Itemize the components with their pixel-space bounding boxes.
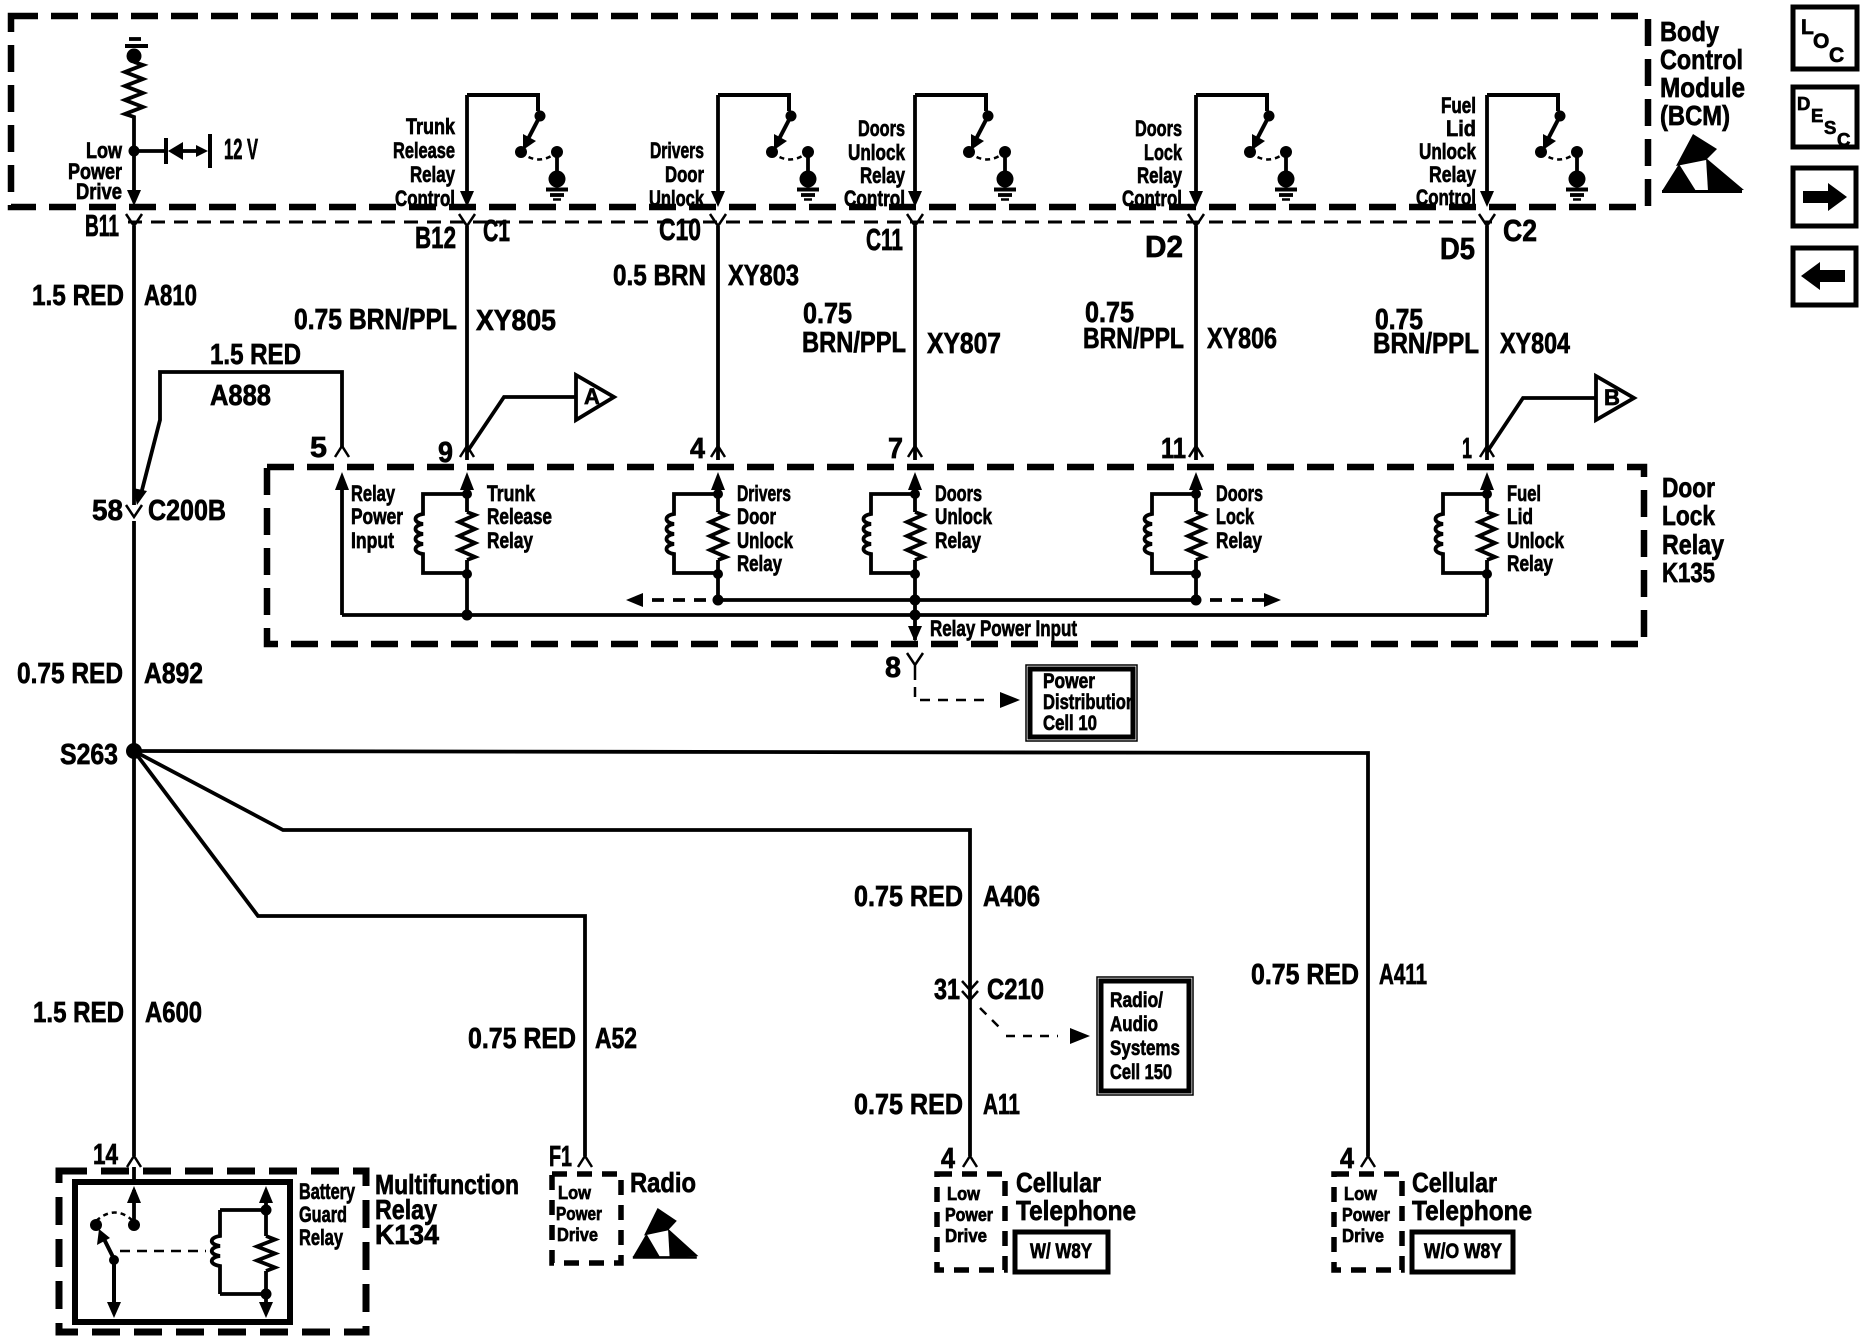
- dashed reference to Power Distribution: [915, 687, 1020, 708]
- svg-text:A888: A888: [210, 380, 271, 412]
- svg-text:Lock: Lock: [1216, 504, 1255, 529]
- pin 14: [127, 1156, 141, 1167]
- relay: Doors Unlock Relay (pin 7): [908, 446, 922, 457]
- svg-text:E: E: [1811, 105, 1823, 126]
- svg-text:S: S: [1824, 117, 1836, 138]
- dashed reference to Radio/Audio Systems: [980, 1008, 1090, 1044]
- svg-text:Fuel: Fuel: [1507, 481, 1541, 506]
- pin 4: [1361, 1156, 1375, 1167]
- Cellular Telephone Low Power Drive (dashed box): [1334, 1174, 1402, 1270]
- svg-text:Control: Control: [844, 186, 905, 211]
- svg-text:Drive: Drive: [945, 1225, 987, 1246]
- svg-text:Input: Input: [351, 528, 395, 553]
- flag A (to cell): [467, 375, 614, 452]
- svg-text:Cell 150: Cell 150: [1110, 1061, 1172, 1084]
- label Fuel Lid Unlock Relay Control: [1416, 93, 1477, 210]
- K134 relay coil and resistor: [212, 1186, 275, 1318]
- connector C2 (pin D5): [1479, 214, 1495, 226]
- svg-text:Cellular: Cellular: [1016, 1167, 1101, 1198]
- K134 switch: [90, 1186, 206, 1318]
- label Doors Lock Relay Control: [1122, 116, 1183, 211]
- svg-text:A600: A600: [145, 997, 202, 1029]
- svg-text:Module: Module: [1660, 72, 1745, 103]
- svg-text:Relay: Relay: [1216, 528, 1263, 553]
- svg-text:4: 4: [941, 1143, 955, 1175]
- svg-text:C10: C10: [659, 212, 701, 247]
- svg-text:Cellular: Cellular: [1412, 1167, 1497, 1198]
- BCM module boundary (dashed box): [11, 16, 1648, 207]
- svg-text:Door: Door: [737, 504, 776, 529]
- svg-text:A892: A892: [144, 658, 203, 690]
- svg-text:Power: Power: [1342, 1204, 1390, 1225]
- svg-text:0.75 RED: 0.75 RED: [854, 881, 963, 913]
- lock/unlock bus (upper): [718, 598, 1196, 602]
- svg-text:0.5 BRN: 0.5 BRN: [613, 260, 706, 292]
- wire D2 drop: [1189, 95, 1203, 207]
- back button: [1793, 248, 1856, 305]
- option box W/O W8Y: [1412, 1232, 1513, 1272]
- label Battery Guard Relay: [299, 1179, 356, 1250]
- svg-text:Doors: Doors: [1135, 116, 1182, 141]
- svg-text:Drive: Drive: [557, 1224, 598, 1245]
- wire A52 branch (S263 to radio): [134, 751, 585, 1156]
- svg-text:Door: Door: [665, 162, 704, 187]
- svg-text:Systems: Systems: [1110, 1037, 1180, 1060]
- label Door Lock Relay K135: [1662, 472, 1724, 588]
- relay: Doors Lock Relay (pin 11): [1189, 446, 1203, 457]
- driver: Doors Lock Relay Control: [1196, 95, 1297, 200]
- reference box Radio/Audio Systems Cell 150: [1097, 977, 1193, 1095]
- svg-text:8: 8: [885, 652, 901, 684]
- svg-text:Body: Body: [1660, 16, 1719, 47]
- svg-text:A52: A52: [595, 1023, 637, 1055]
- svg-text:Doors: Doors: [935, 481, 982, 506]
- wire A810 (B11 to C200B): [132, 226, 136, 505]
- svg-text:Relay: Relay: [860, 163, 906, 188]
- svg-text:4: 4: [690, 433, 705, 465]
- svg-text:Relay: Relay: [737, 551, 783, 576]
- BCM connector line (thin dashed): [128, 221, 1492, 224]
- svg-text:K134: K134: [375, 1219, 439, 1250]
- svg-text:K135: K135: [1662, 557, 1715, 588]
- driver: Doors Unlock Relay Control: [915, 95, 1016, 200]
- svg-text:D2: D2: [1145, 229, 1183, 264]
- wire A411 branch (S263 to right cellular telephone): [134, 751, 1368, 1156]
- svg-text:XY804: XY804: [1500, 328, 1570, 360]
- connector C200B (pin 58): [126, 505, 142, 517]
- relay power bus (lower): [342, 613, 1487, 617]
- label Trunk Release Relay Control: [393, 114, 456, 211]
- pin F1: [578, 1156, 592, 1167]
- svg-text:0.75 RED: 0.75 RED: [1251, 959, 1359, 991]
- DESC button: [1793, 87, 1857, 150]
- svg-text:F1: F1: [549, 1141, 572, 1173]
- svg-text:Fuel: Fuel: [1441, 93, 1476, 118]
- svg-text:D5: D5: [1440, 231, 1475, 266]
- svg-text:B: B: [1604, 385, 1620, 410]
- svg-text:1.5 RED: 1.5 RED: [210, 339, 301, 371]
- K134 relay case (solid box): [75, 1182, 290, 1322]
- svg-text:11: 11: [1161, 433, 1186, 465]
- svg-text:Low: Low: [947, 1183, 981, 1204]
- svg-text:Unlock: Unlock: [1507, 528, 1565, 553]
- svg-text:XY806: XY806: [1207, 323, 1277, 355]
- svg-text:Unlock: Unlock: [1419, 139, 1477, 164]
- svg-text:W/ W8Y: W/ W8Y: [1030, 1240, 1092, 1263]
- svg-text:C: C: [1837, 129, 1850, 150]
- svg-text:Relay Power Input: Relay Power Input: [930, 616, 1078, 641]
- svg-text:Relay: Relay: [1507, 551, 1554, 576]
- svg-text:Relay: Relay: [935, 528, 982, 553]
- wire A892 (C200B to S263): [132, 521, 136, 751]
- svg-text:Trunk: Trunk: [406, 114, 456, 139]
- svg-text:BRN/PPL: BRN/PPL: [1373, 328, 1479, 360]
- svg-text:A810: A810: [144, 280, 197, 312]
- svg-text:Distribution: Distribution: [1043, 691, 1136, 714]
- relay: Trunk Release Relay (pin 9): [460, 446, 474, 457]
- wire C11 drop: [908, 95, 922, 207]
- svg-text:C11: C11: [866, 222, 903, 257]
- ESD sensitivity symbol (BCM): [1662, 134, 1744, 193]
- Radio Low Power Drive (dashed box): [552, 1174, 621, 1263]
- svg-text:1.5 RED: 1.5 RED: [33, 997, 124, 1029]
- driver: Drivers Door Unlock: [718, 95, 819, 200]
- svg-text:Unlock: Unlock: [649, 186, 705, 211]
- svg-text:Relay: Relay: [410, 162, 456, 187]
- LOC button: [1793, 7, 1857, 69]
- svg-text:A11: A11: [983, 1089, 1020, 1121]
- option box W/ W8Y: [1015, 1232, 1108, 1272]
- forward button: [1793, 168, 1856, 226]
- svg-text:O: O: [1813, 30, 1829, 53]
- svg-text:5: 5: [310, 432, 327, 464]
- svg-text:Drive: Drive: [76, 179, 122, 204]
- Cellular Telephone Low Power Drive (dashed box): [937, 1174, 1005, 1270]
- svg-text:Radio/: Radio/: [1110, 989, 1163, 1012]
- relay: Drivers Door Unlock Relay (pin 4): [711, 446, 725, 457]
- resistor (Low Power Drive pull-up): [125, 62, 143, 146]
- connector C11: [907, 214, 923, 226]
- svg-text:C: C: [1829, 44, 1844, 67]
- svg-text:C210: C210: [987, 974, 1044, 1006]
- wire C1 drop: [460, 95, 474, 207]
- svg-text:Unlock: Unlock: [737, 528, 794, 553]
- svg-text:Doors: Doors: [1216, 481, 1263, 506]
- connector C10: [710, 214, 726, 226]
- svg-text:58: 58: [92, 495, 123, 527]
- splice S263: [126, 743, 142, 759]
- svg-text:D: D: [1797, 93, 1810, 114]
- reference box Power Distribution Cell 10: [1026, 665, 1137, 741]
- svg-text:Doors: Doors: [858, 116, 905, 141]
- K135 module boundary (dashed box): [267, 467, 1644, 644]
- connector B11: [126, 214, 142, 226]
- svg-text:C200B: C200B: [148, 495, 226, 527]
- svg-text:7: 7: [888, 433, 903, 465]
- node at Low Power Drive: [129, 146, 140, 157]
- svg-text:Drivers: Drivers: [650, 138, 704, 163]
- svg-text:Relay: Relay: [1662, 529, 1724, 560]
- svg-text:Release: Release: [487, 504, 552, 529]
- svg-text:Release: Release: [393, 138, 455, 163]
- flag B (to cell): [1487, 376, 1634, 452]
- svg-text:XY807: XY807: [927, 328, 1001, 360]
- wire A888 branch (C200B to pin 5): [133, 372, 342, 505]
- svg-text:W/O W8Y: W/O W8Y: [1424, 1240, 1502, 1263]
- svg-text:Control: Control: [1416, 185, 1476, 210]
- svg-text:14: 14: [93, 1139, 118, 1171]
- svg-text:Control: Control: [1122, 186, 1182, 211]
- svg-text:Unlock: Unlock: [848, 140, 906, 165]
- junction dots: [462, 610, 473, 621]
- svg-text:4: 4: [1340, 1143, 1354, 1175]
- svg-text:A: A: [584, 384, 600, 409]
- wire A406 branch (S263 to C210): [134, 751, 970, 1156]
- wire B11 drop inside BCM: [127, 151, 141, 206]
- svg-text:Drivers: Drivers: [737, 481, 791, 506]
- svg-text:Radio: Radio: [630, 1167, 696, 1198]
- svg-text:0.75: 0.75: [803, 298, 852, 330]
- svg-text:XY805: XY805: [476, 305, 556, 337]
- driver: Trunk Release Relay Control: [467, 95, 568, 200]
- svg-text:A406: A406: [983, 881, 1040, 913]
- svg-text:Relay: Relay: [1137, 163, 1183, 188]
- svg-text:31: 31: [934, 974, 960, 1006]
- pin 8 Relay Power Input output: [908, 626, 922, 642]
- wire XY806 (D2 to pin 11): [1194, 226, 1198, 460]
- svg-text:Relay: Relay: [351, 481, 396, 506]
- svg-text:Lock: Lock: [1144, 140, 1183, 165]
- svg-text:1: 1: [1462, 433, 1472, 465]
- dashed continuation right with arrow: [1210, 593, 1281, 607]
- svg-text:0.75 RED: 0.75 RED: [854, 1089, 963, 1121]
- svg-text:Lid: Lid: [1507, 504, 1533, 529]
- svg-text:Power: Power: [945, 1204, 993, 1225]
- svg-text:Relay: Relay: [1429, 162, 1477, 187]
- svg-text:Low: Low: [558, 1182, 592, 1203]
- svg-text:S263: S263: [60, 739, 118, 771]
- svg-text:Power: Power: [1043, 670, 1095, 693]
- wire XY803 (C10 to pin 4): [716, 226, 720, 460]
- svg-text:0.75 RED: 0.75 RED: [17, 658, 123, 690]
- svg-text:1.5 RED: 1.5 RED: [32, 280, 124, 312]
- svg-text:BRN/PPL: BRN/PPL: [1083, 323, 1184, 355]
- svg-text:XY803: XY803: [728, 260, 799, 292]
- wire XY804 (C2 to pin 1): [1485, 226, 1489, 460]
- wire C2 drop: [1480, 95, 1494, 207]
- label Doors Unlock Relay Control: [844, 116, 906, 211]
- svg-text:Low: Low: [1344, 1183, 1378, 1204]
- K134 module boundary (dashed box): [59, 1171, 366, 1332]
- svg-text:12 V: 12 V: [224, 134, 258, 166]
- diode to 12 V: [134, 134, 210, 168]
- svg-text:Audio: Audio: [1110, 1013, 1158, 1036]
- pin 5 Relay Power Input: [335, 446, 349, 457]
- svg-text:A411: A411: [1379, 959, 1427, 991]
- svg-text:0.75 RED: 0.75 RED: [468, 1023, 576, 1055]
- svg-text:C2: C2: [1503, 213, 1537, 248]
- svg-text:Guard: Guard: [299, 1202, 347, 1227]
- svg-text:Cell 10: Cell 10: [1043, 712, 1097, 735]
- svg-text:Lid: Lid: [1446, 116, 1476, 141]
- svg-text:Control: Control: [1660, 44, 1743, 75]
- connector Y at pin 8: [907, 653, 923, 680]
- svg-text:BRN/PPL: BRN/PPL: [802, 327, 906, 359]
- connector C210 (pin 31): [962, 981, 978, 1000]
- wire C10 drop: [711, 95, 725, 207]
- driver: Fuel Lid Unlock Relay Control: [1487, 95, 1588, 200]
- svg-text:0.75 BRN/PPL: 0.75 BRN/PPL: [294, 304, 457, 336]
- label Multifunction Relay K134: [375, 1169, 519, 1250]
- connector D2: [1188, 214, 1204, 226]
- svg-text:(BCM): (BCM): [1660, 100, 1730, 131]
- wire A600 (S263 to K134): [132, 751, 136, 1156]
- svg-text:Trunk: Trunk: [487, 481, 536, 506]
- relay: Fuel Lid Unlock Relay (pin 1): [1480, 446, 1494, 457]
- svg-text:Lock: Lock: [1662, 500, 1715, 531]
- svg-text:B11: B11: [85, 208, 119, 243]
- svg-text:Power: Power: [351, 504, 403, 529]
- pin 4: [963, 1156, 977, 1167]
- label Low Power Drive: [68, 138, 123, 204]
- svg-text:Drive: Drive: [1342, 1225, 1384, 1246]
- label Drivers Door Unlock: [649, 138, 705, 211]
- svg-text:Relay: Relay: [487, 528, 534, 553]
- svg-text:Door: Door: [1662, 472, 1715, 503]
- wire XY805 (C1 to pin 9): [465, 226, 469, 460]
- dashed continuation left with arrow: [626, 593, 706, 607]
- battery feed symbol at top of Low Power Drive: [125, 39, 148, 64]
- svg-text:Relay: Relay: [299, 1225, 344, 1250]
- svg-text:Telephone: Telephone: [1412, 1195, 1532, 1226]
- svg-text:9: 9: [438, 437, 453, 469]
- svg-text:Power: Power: [556, 1203, 602, 1224]
- svg-text:C1: C1: [483, 213, 510, 248]
- ESD sensitivity symbol (Radio): [633, 1208, 699, 1259]
- wire XY807 (C11 to pin 7): [913, 226, 917, 460]
- svg-text:B12: B12: [415, 220, 456, 255]
- svg-text:Battery: Battery: [299, 1179, 356, 1204]
- svg-text:Unlock: Unlock: [935, 504, 993, 529]
- svg-text:Telephone: Telephone: [1016, 1195, 1136, 1226]
- connector C1 (pin B12): [459, 214, 475, 226]
- label Body Control Module (BCM): [1660, 16, 1745, 131]
- svg-text:Control: Control: [395, 186, 455, 211]
